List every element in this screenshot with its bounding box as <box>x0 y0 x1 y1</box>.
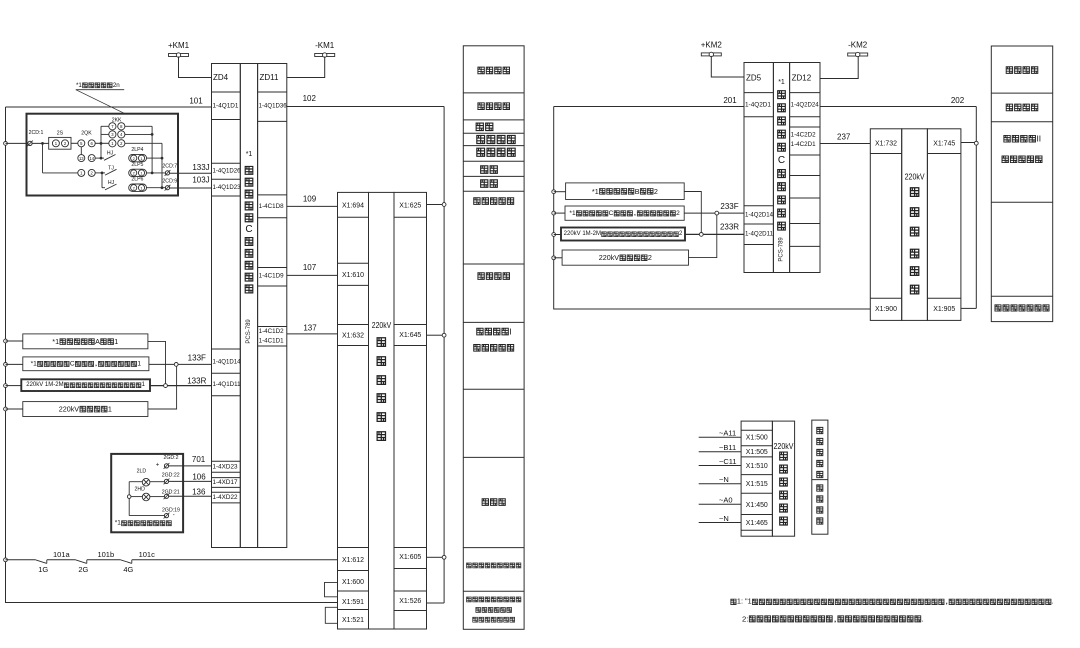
wire 233R <box>554 234 561 236</box>
svg-text:X1:745: X1:745 <box>933 139 955 148</box>
left DC bus vertical + bottom feed to X1:591 <box>6 107 338 603</box>
svg-text:106: 106 <box>192 473 206 482</box>
X1:605 tie to vertical <box>427 556 443 558</box>
terminal column ZD4 frame <box>212 64 241 548</box>
wire box A to 133R riser <box>6 340 23 342</box>
label 跳闸回路II 合位继电器 <box>1004 135 1010 142</box>
label 手跳 <box>476 123 483 131</box>
box 220kV 1M-2M母差及断路器失灵保护一跳闸1 (new, bold) <box>21 379 150 391</box>
wire bus to 2CD:1 and into box <box>6 142 28 144</box>
contacts 1-2 on TJ row <box>78 169 85 176</box>
op-box text column (left) *1 主变保护屏C三相操作箱 <box>240 64 257 548</box>
ZD11 cell lines <box>258 91 287 93</box>
wire box B down to 233R <box>554 191 566 193</box>
AC supply terminal box 220kV断路器机构箱 (bottom) <box>741 421 772 536</box>
wire +KM1 to ZD4 <box>179 57 212 78</box>
svg-text:-: - <box>173 512 175 518</box>
terminal column ZD5 frame <box>744 63 773 273</box>
wire 101 from bus to terminal 1-4Q1D1 <box>6 106 212 108</box>
svg-text:1: 1 <box>108 405 112 414</box>
heater/motor supply column <box>812 420 828 534</box>
svg-text:X1:526: X1:526 <box>399 596 421 605</box>
indicator lamp box of measuring panel <box>111 454 183 532</box>
wire 701 to 1-4XD23 <box>169 465 212 467</box>
svg-text:2HD: 2HD <box>135 486 146 492</box>
X1:745 tie to vertical <box>961 142 976 144</box>
svg-text:1-4Q1D36: 1-4Q1D36 <box>259 103 287 110</box>
svg-text:.: . <box>1052 598 1054 605</box>
label 第二组闭锁电源 <box>995 305 1001 311</box>
svg-text:2:: 2: <box>742 614 748 623</box>
svg-text:X1:510: X1:510 <box>746 461 768 470</box>
svg-text:1-4Q1D1: 1-4Q1D1 <box>213 103 239 110</box>
svg-text:137: 137 <box>303 324 317 333</box>
svg-text:1-4Q2D14: 1-4Q2D14 <box>745 211 773 218</box>
label 直流电源 (2) <box>1006 67 1012 74</box>
label 遥跳 <box>481 166 488 174</box>
svg-text:2QK: 2QK <box>81 130 92 136</box>
svg-text:1G: 1G <box>38 565 48 574</box>
svg-text:13: 13 <box>79 156 84 161</box>
labels 第一组就地跳闸电源/电机控制电源/第一组闭锁电源 <box>467 597 472 602</box>
X1:905 tie from vertical <box>961 307 976 309</box>
box *1主变保护屏B跳闸2 <box>566 183 685 200</box>
svg-text:*1: *1 <box>76 82 82 89</box>
svg-text:1-4XD17: 1-4XD17 <box>213 479 238 486</box>
svg-text:X1:900: X1:900 <box>875 304 897 313</box>
svg-text:~C11: ~C11 <box>719 457 737 466</box>
right DC bus vertical + feed to X1:900 <box>554 107 871 310</box>
svg-text:220kV: 220kV <box>372 320 392 330</box>
svg-text:X1:500: X1:500 <box>746 433 768 442</box>
svg-text:*1: *1 <box>115 520 121 527</box>
wire 14 to HJ contact <box>95 157 101 159</box>
svg-text:PCS-789: PCS-789 <box>779 237 785 262</box>
svg-text:2G: 2G <box>78 565 88 574</box>
wire +KM2 to ZD5 <box>711 56 744 77</box>
svg-text:2LP5: 2LP5 <box>131 162 143 168</box>
svg-text:2n: 2n <box>113 82 120 89</box>
svg-text:+KM2: +KM2 <box>701 40 723 49</box>
function label column (second group) <box>991 46 1052 322</box>
knife switch 4G <box>121 560 132 564</box>
X1:625 tie to vertical <box>427 204 443 206</box>
svg-text:~N: ~N <box>719 475 729 484</box>
svg-text:X1:612: X1:612 <box>342 555 364 564</box>
svg-text:HJ: HJ <box>107 151 114 157</box>
svg-text:133F: 133F <box>188 354 206 363</box>
terminal column ZD11 frame <box>258 64 287 548</box>
svg-text:*1: *1 <box>246 151 253 158</box>
svg-text:2LP6: 2LP6 <box>131 177 143 183</box>
svg-text:233R: 233R <box>720 223 739 232</box>
svg-text:2GD:19: 2GD:19 <box>162 508 180 514</box>
svg-text:X1:694: X1:694 <box>342 201 364 210</box>
svg-text:,: , <box>94 360 98 367</box>
label 操作电源 (2) <box>1006 104 1012 111</box>
svg-text:133J: 133J <box>192 163 209 172</box>
svg-text:~A11: ~A11 <box>719 429 736 438</box>
wire 201 bus to 1-4Q2D1 <box>554 106 744 108</box>
svg-text:ZD11: ZD11 <box>260 73 280 82</box>
svg-text:1-4C2D2: 1-4C2D2 <box>791 132 816 139</box>
link strap 2LP4 <box>129 154 147 161</box>
svg-text:ZD4: ZD4 <box>213 73 229 82</box>
label 直流电源 <box>478 67 484 74</box>
wire 202 to right vertical <box>820 106 976 108</box>
label 合闸回路 <box>478 273 484 280</box>
svg-text:A: A <box>95 337 100 346</box>
wire 107 1-4C1D9 to X1:610 <box>287 274 338 276</box>
svg-text:102: 102 <box>303 94 317 103</box>
svg-text:X1:521: X1:521 <box>342 615 364 624</box>
terminal column ZD12 frame <box>790 63 820 273</box>
X1 left column cell lines <box>338 216 369 218</box>
svg-text:II: II <box>1036 134 1041 144</box>
svg-text:X1:465: X1:465 <box>746 518 768 527</box>
note line 1 <box>731 599 736 604</box>
link strap 2LP5 <box>129 169 147 176</box>
svg-text:107: 107 <box>303 263 317 272</box>
svg-text:701: 701 <box>192 455 206 464</box>
svg-text:X1:625: X1:625 <box>399 201 421 210</box>
svg-text:220kV: 220kV <box>774 441 794 451</box>
svg-text:2: 2 <box>654 187 658 196</box>
wire 备自投 up to 133F <box>6 408 23 410</box>
local closing supply line 101a/101b/101c <box>6 559 36 561</box>
wire -KM2 to ZD12 <box>820 56 858 79</box>
svg-text:TJ: TJ <box>108 165 114 171</box>
svg-text:2CD:7: 2CD:7 <box>162 163 177 169</box>
X1:526 tie to vertical <box>427 602 445 604</box>
link strap 2LP6 <box>129 184 147 191</box>
svg-text:C: C <box>245 224 252 235</box>
label 电机电源 <box>817 485 823 491</box>
label 第一组就地合闸电源 <box>467 563 472 568</box>
svg-text:,: , <box>633 210 637 217</box>
svg-text:220kV 1M-2M: 220kV 1M-2M <box>26 382 63 388</box>
breaker mechanism box 220kV断路器机构箱 (main) <box>338 192 369 629</box>
svg-text:2GD:2: 2GD:2 <box>163 455 178 461</box>
label 跳闸回路I 合位继电器 <box>477 328 483 335</box>
svg-text:.: . <box>922 614 924 623</box>
TJ branch from node down <box>42 143 44 173</box>
2KK contacts 3-4 <box>109 131 116 138</box>
svg-text:1-4XD22: 1-4XD22 <box>213 494 238 501</box>
svg-text:+: + <box>156 462 160 468</box>
jumper X1:600 to X1:591 <box>325 582 338 596</box>
label 遥合 <box>481 180 488 188</box>
op-box text column (right) <box>773 63 789 273</box>
svg-text:,: , <box>945 598 949 605</box>
knife switch 2G <box>76 560 87 564</box>
svg-text:2S: 2S <box>57 130 64 136</box>
wire -KM1 to ZD11 <box>287 57 325 78</box>
wire 备自投2 up to 233F <box>554 257 562 259</box>
svg-text:*1: *1 <box>778 79 785 86</box>
svg-text:X1:600: X1:600 <box>342 577 364 586</box>
svg-text:1-4Q1D14: 1-4Q1D14 <box>213 358 241 365</box>
box *1主变保护屏C非电量各侧失灵跳闸1 <box>23 357 149 371</box>
wire 102 from 1-4Q1D36 to right vertical <box>287 106 444 108</box>
switch 2S <box>49 137 71 149</box>
svg-text:4G: 4G <box>123 565 133 574</box>
svg-text:*1: *1 <box>52 337 59 346</box>
X1:645 tie to vertical <box>427 334 443 336</box>
svg-text:ZD12: ZD12 <box>792 74 812 83</box>
jumper X1:591 to X1:521 <box>325 607 337 623</box>
svg-text:1-4C1D8: 1-4C1D8 <box>259 203 284 210</box>
svg-text:2GD:21: 2GD:21 <box>162 489 180 495</box>
AC phase wires ~A11 ~B11 ~C11 ~N ~A0 ~N <box>699 436 741 438</box>
svg-text:1-4Q1D23: 1-4Q1D23 <box>213 184 241 191</box>
svg-text:*1: *1 <box>592 187 599 196</box>
label 红绿灯 <box>482 499 488 506</box>
svg-text:101b: 101b <box>97 550 114 559</box>
svg-text:1-4Q2D11: 1-4Q2D11 <box>745 230 773 237</box>
svg-text:1: 1 <box>137 360 141 367</box>
svg-text:2: 2 <box>648 253 652 262</box>
svg-text:202: 202 <box>951 96 965 105</box>
svg-text:*1: *1 <box>31 360 38 367</box>
svg-text:233F: 233F <box>720 202 738 211</box>
svg-text:X1:905: X1:905 <box>933 304 955 313</box>
2KK contacts 7-8 <box>109 123 116 130</box>
relay contact HJ (row 2LP6) <box>102 187 105 189</box>
svg-text:ZD5: ZD5 <box>746 74 762 83</box>
wire 136 to 1-4XD22 <box>169 495 212 497</box>
svg-text:X1:450: X1:450 <box>746 500 768 509</box>
box *1主变保护屏A跳闸1 <box>23 334 148 349</box>
svg-text:201: 201 <box>723 96 737 105</box>
wire 137 1-4C1D2/D1 to X1:632 <box>287 333 338 335</box>
label 跳位继电器 <box>474 198 480 205</box>
wire 2LP4 to riser x=162 <box>147 157 163 159</box>
svg-text:2CD:1: 2CD:1 <box>29 130 44 136</box>
svg-text:PCS-789: PCS-789 <box>246 319 252 344</box>
wire 2LP6 to terminal 2CD:9 <box>147 187 166 189</box>
svg-text:X1:505: X1:505 <box>746 447 768 456</box>
box 220kV 1M-2M母差及断路器失灵保护二跳闸2 (new, bold) <box>561 228 685 241</box>
relay contact TJ (row 2LP5) <box>102 172 105 174</box>
svg-text:220kV 1M-2M: 220kV 1M-2M <box>564 231 601 237</box>
left riser x=101 joining 2KK rows <box>100 126 102 158</box>
svg-text:101a: 101a <box>53 550 71 559</box>
svg-text:1-4C1D9: 1-4C1D9 <box>259 273 284 280</box>
knife switch 1G <box>36 560 47 564</box>
wire 237 to X1:732 <box>820 143 870 145</box>
svg-text:~A0: ~A0 <box>719 496 733 505</box>
right bus tap circles <box>552 190 556 194</box>
measuring panel box *1主变测控屏2n <box>27 114 179 196</box>
svg-text:220kV: 220kV <box>905 172 925 182</box>
svg-text:1-4Q1D26: 1-4Q1D26 <box>213 168 241 175</box>
svg-text:2LP4: 2LP4 <box>131 147 143 153</box>
svg-text:~N: ~N <box>719 514 729 523</box>
svg-text:-KM1: -KM1 <box>315 41 335 50</box>
svg-text:1-4Q2D24: 1-4Q2D24 <box>791 102 819 109</box>
wire 133R <box>6 385 22 387</box>
riser x=162 from 2KK row1-2 <box>125 142 162 144</box>
svg-text:1: 1 <box>114 337 118 346</box>
svg-text:X1:645: X1:645 <box>399 330 421 339</box>
svg-text:1-4Q2D1: 1-4Q2D1 <box>745 102 771 109</box>
svg-text:-KM2: -KM2 <box>848 41 868 50</box>
svg-text:HJ: HJ <box>108 180 115 186</box>
svg-text:1-4Q1D11: 1-4Q1D11 <box>213 381 241 388</box>
riser x=102 to HJ2 row <box>101 173 103 188</box>
wire 2S to 2QK <box>71 142 78 144</box>
svg-text:~B11: ~B11 <box>719 443 736 452</box>
svg-text:+KM1: +KM1 <box>168 41 190 50</box>
svg-text:X1:632: X1:632 <box>342 331 364 340</box>
wire 133F <box>6 363 23 365</box>
breaker mechanism box (right) <box>870 129 901 321</box>
svg-text:2LD: 2LD <box>137 468 147 474</box>
wire 133J to 1-4Q1D26 <box>170 172 212 174</box>
svg-text:101: 101 <box>189 96 203 105</box>
svg-text:X1:515: X1:515 <box>746 479 768 488</box>
svg-text:C: C <box>778 155 785 166</box>
wire 109 1-4C1D8 to X1:694 <box>287 205 338 207</box>
box 220kV备自投屏1 <box>23 402 148 417</box>
function label column (first group) <box>463 46 524 630</box>
svg-text:2GD:22: 2GD:22 <box>162 472 180 478</box>
label 加热器电源 <box>817 427 823 433</box>
riser x=152 from 2KK outputs <box>125 125 152 127</box>
svg-text:2CD:9: 2CD:9 <box>162 178 177 184</box>
right-side vertical tie wire x=444 <box>443 107 445 604</box>
svg-text:C: C <box>609 210 614 217</box>
svg-text:1: "1: 1: "1 <box>737 598 752 605</box>
svg-text:*1: *1 <box>569 210 576 217</box>
label 同期手合 <box>477 148 485 156</box>
label 强制手合 <box>477 135 485 143</box>
svg-text:14: 14 <box>89 156 94 161</box>
svg-text:X1:591: X1:591 <box>342 597 364 606</box>
box *1主变保护屏C非电量各侧失灵跳闸2 <box>565 206 684 220</box>
wire 2LP5 to terminal 2CD:7 <box>147 172 166 174</box>
X1 right column cell lines <box>394 216 427 218</box>
svg-text:1-4C1D2: 1-4C1D2 <box>259 328 284 335</box>
lamp box internal wires <box>150 481 165 483</box>
vertical tie x=976 <box>975 107 977 309</box>
svg-text:1-4C2D1: 1-4C2D1 <box>791 141 816 148</box>
label 操作电源 <box>478 103 484 110</box>
svg-text:X1:732: X1:732 <box>875 139 897 148</box>
svg-text:101c: 101c <box>139 550 156 559</box>
svg-text:133R: 133R <box>187 377 206 386</box>
relay contact HJ (row 2LP4) <box>101 157 104 159</box>
svg-text:220kV: 220kV <box>59 405 80 414</box>
svg-text:237: 237 <box>837 133 851 142</box>
svg-text:220kV: 220kV <box>599 253 620 262</box>
svg-text:109: 109 <box>303 195 317 204</box>
wire 2QK to node <box>95 142 109 144</box>
svg-text:,: , <box>833 614 837 623</box>
svg-text:I: I <box>509 327 511 337</box>
2KK contacts 1-2 <box>109 140 116 147</box>
box 220kV备自投屏2 <box>562 250 688 265</box>
svg-text:X1:605: X1:605 <box>399 552 421 561</box>
wire 233F <box>554 212 565 214</box>
svg-text:1-4XD23: 1-4XD23 <box>213 463 238 470</box>
svg-text:2: 2 <box>676 210 680 217</box>
svg-text:B: B <box>635 187 640 196</box>
device model PCS-789 rotated <box>246 319 252 344</box>
ZD4 cell lines <box>212 91 241 93</box>
svg-text:X1:610: X1:610 <box>342 270 364 279</box>
svg-text:103J: 103J <box>192 175 209 184</box>
wire 103J to 1-4Q1D23 <box>170 187 212 189</box>
bus tap circles <box>4 142 8 146</box>
svg-text:C: C <box>70 360 75 367</box>
svg-text:1-4C1D1: 1-4C1D1 <box>259 337 284 344</box>
wire 106 to 1-4XD17 <box>169 480 212 482</box>
svg-text:136: 136 <box>192 487 206 496</box>
